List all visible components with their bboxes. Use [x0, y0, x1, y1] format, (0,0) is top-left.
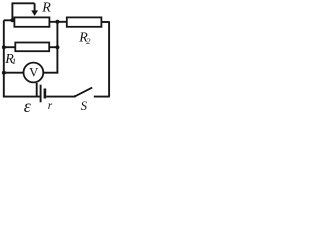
wire: R1 left stub: [4, 46, 16, 48]
wire: voltmeter right lead: [43, 72, 58, 74]
junction node B at R1 right: [55, 45, 59, 49]
wire: R2 right to right rail: [101, 21, 109, 23]
resistor R1 box: [15, 43, 49, 52]
wire: R1 right to mid vertical: [49, 46, 57, 48]
wire: right rail: [108, 22, 110, 97]
arrowhead of rheostat slider: [31, 10, 38, 16]
svg-text:r: r: [48, 100, 53, 112]
junction dot: slider arm to R left node: [10, 18, 14, 22]
svg-text:ε: ε: [24, 96, 32, 112]
resistor R (rheostat box): [14, 17, 49, 26]
wire: voltmeter bottom lead: [36, 83, 38, 97]
switch pivot dot: [74, 95, 76, 97]
svg-text:1: 1: [12, 56, 16, 66]
wire: arrow shaft down: [34, 3, 36, 11]
voltmeter U1 circle: [24, 63, 44, 83]
junction node A at voltmeter left: [2, 71, 6, 75]
svg-text:S: S: [81, 99, 88, 112]
svg-text:V: V: [29, 65, 39, 79]
wire: rheostat slider arm (vertical drop): [11, 3, 13, 20]
resistor R2 box: [67, 17, 102, 26]
svg-text:2: 2: [86, 36, 91, 46]
wire: rheostat slider arm (top horizontal): [12, 2, 35, 4]
battery long plate (positive): [40, 85, 42, 103]
wire: bottom left (battery negative lead): [3, 96, 40, 98]
junction node A at R1 left rail: [2, 45, 6, 49]
wire: voltmeter left lead: [4, 72, 24, 74]
battery short plate (negative): [44, 89, 47, 99]
switch S blade: [75, 88, 92, 97]
wire: battery to switch: [46, 96, 75, 98]
svg-text:R: R: [41, 1, 51, 16]
wire: R left stub: [4, 19, 15, 21]
wire: mid vertical (node B): [56, 22, 58, 73]
wire: R right to R2 left (top wire): [49, 21, 66, 23]
junction node B top (R right / R2 left): [55, 20, 59, 24]
wire: switch to right rail: [94, 96, 110, 98]
wire: left rail: [3, 20, 5, 97]
